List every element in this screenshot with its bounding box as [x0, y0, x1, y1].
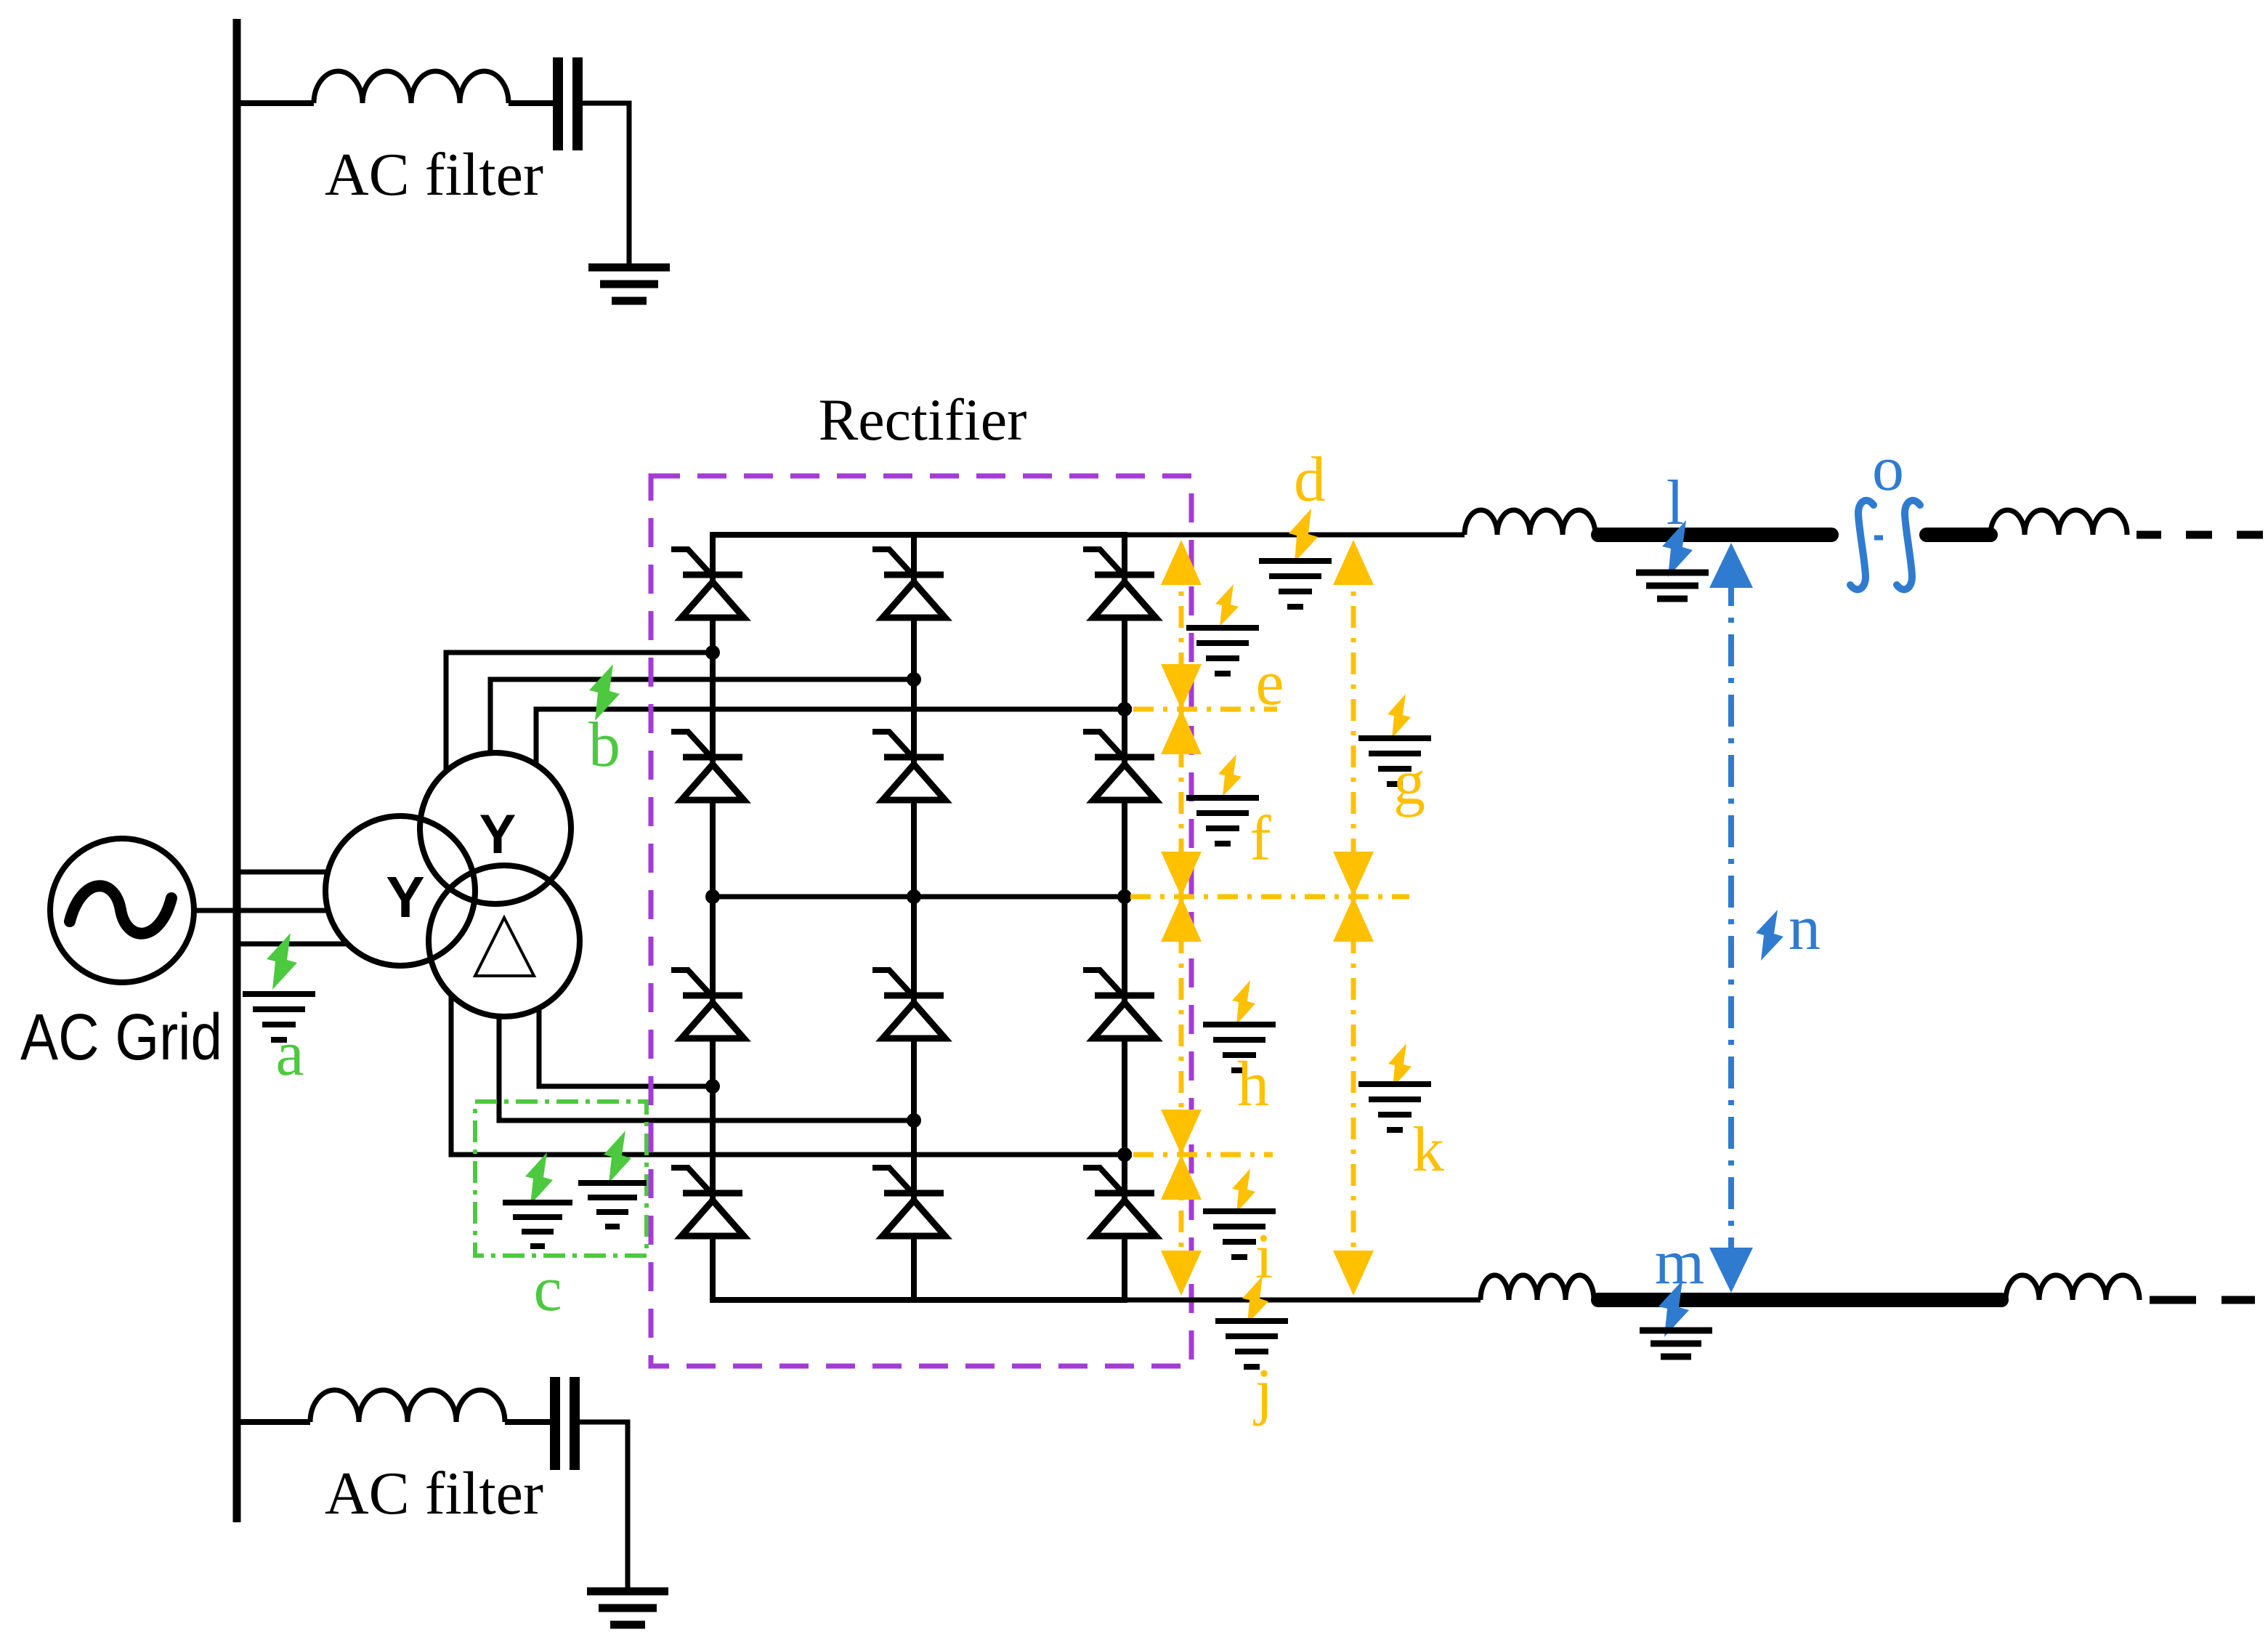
ground bottom AC filter — [587, 1591, 668, 1625]
wire phase3 bus to transformer — [237, 942, 407, 947]
wire DC bottom line — [1127, 1298, 1481, 1303]
node junction 1 — [705, 645, 720, 660]
svg-text:n: n — [1789, 893, 1821, 964]
rectifier enclosure box — [651, 476, 1191, 1366]
svg-text:Y: Y — [386, 865, 424, 929]
thyristor V10 — [671, 1168, 744, 1236]
fault bolt h — [1232, 980, 1255, 1025]
svg-text:AC filter: AC filter — [325, 1460, 543, 1527]
thyristor V8 — [872, 970, 945, 1038]
fault dimension line V1 — [1179, 560, 1184, 1286]
ground top AC filter — [588, 267, 670, 301]
fault bolt n — [1756, 910, 1783, 961]
wire Y-secondary phase2 — [490, 679, 917, 799]
smoothing reactor DC top left — [1465, 510, 1595, 535]
wire Y-secondary phase3 — [536, 709, 1132, 799]
svg-text:a: a — [275, 1019, 304, 1089]
fault bolt i — [1232, 1168, 1255, 1213]
fault bolt c2 — [604, 1131, 631, 1183]
ground fault i — [1203, 1211, 1276, 1257]
fault bolt l — [1662, 520, 1693, 577]
wire inductor to capacitor — [509, 100, 554, 106]
capacitor top AC filter — [558, 57, 578, 150]
svg-text:e: e — [1255, 648, 1284, 719]
fault zone box c — [475, 1102, 647, 1256]
ground fault g — [1358, 738, 1431, 784]
wire bus to top AC filter — [237, 100, 314, 106]
wire phase1 bus to transformer — [237, 870, 407, 875]
ground fault c1 — [503, 1203, 572, 1246]
wire D-secondary phase3 — [451, 966, 1132, 1155]
svg-text:d: d — [1294, 445, 1326, 515]
ground fault a — [243, 994, 315, 1040]
wire rectifier mid point — [713, 894, 1132, 900]
fault dimension line V2 — [1351, 560, 1356, 1286]
AC source AC Grid — [50, 839, 194, 982]
node junction 6 — [1117, 889, 1132, 904]
wire DC bottom dashed continuation — [2150, 1296, 2255, 1304]
node junction 9 — [1117, 1147, 1132, 1162]
svg-text:m: m — [1655, 1227, 1704, 1298]
svg-text:Rectifier: Rectifier — [819, 387, 1027, 453]
wire rectifier leg 3 — [1122, 535, 1127, 1300]
svg-text:g: g — [1393, 748, 1425, 818]
thyristor V4 — [671, 732, 744, 800]
fault bolt k — [1388, 1043, 1412, 1088]
svg-text:AC filter: AC filter — [325, 141, 543, 209]
capacitor bottom AC filter — [555, 1377, 575, 1470]
DC bottom line thick section — [1598, 1293, 2001, 1307]
svg-text:o: o — [1872, 434, 1904, 504]
fault line i extension — [1133, 1152, 1273, 1158]
wire rectifier leg 2 — [911, 535, 917, 1300]
svg-text:Y: Y — [479, 804, 517, 865]
wire DC top dashed continuation — [2137, 531, 2263, 539]
svg-text:AC Grid: AC Grid — [20, 1001, 222, 1074]
fault line e extension — [1133, 707, 1277, 712]
wire rectifier bottom bus — [710, 1297, 1127, 1303]
thyristor V12 — [1083, 1168, 1156, 1236]
wire bus to bottom AC filter — [237, 1419, 310, 1425]
inductor bottom AC filter — [310, 1390, 505, 1422]
wire capacitor to ground — [580, 1422, 628, 1590]
AC bus bar — [233, 19, 241, 1522]
node junction 4 — [705, 889, 720, 904]
thyristor V3 — [1083, 549, 1156, 618]
ground fault d — [1259, 561, 1332, 607]
thyristor V2 — [872, 549, 945, 618]
node junction 8 — [907, 1113, 921, 1128]
ground fault l — [1636, 573, 1709, 599]
thyristor V9 — [1083, 970, 1156, 1038]
svg-text:c: c — [533, 1254, 562, 1325]
fault bolt a — [267, 933, 297, 990]
wire source to bus — [192, 908, 237, 913]
thyristor V1 — [671, 549, 744, 618]
thyristor V5 — [872, 732, 945, 800]
wire D-secondary phase1 — [539, 966, 716, 1086]
node junction 3 — [1117, 702, 1132, 716]
thyristor V7 — [671, 970, 744, 1038]
node junction 2 — [907, 672, 921, 687]
fault bolt j — [1242, 1276, 1268, 1324]
wire rectifier leg 1 — [710, 535, 716, 1300]
thyristor V6 — [1083, 732, 1156, 800]
fault bolt c1 — [525, 1152, 553, 1205]
inductor top AC filter — [314, 71, 509, 103]
smoothing reactor DC bottom right — [2006, 1275, 2139, 1300]
wire rectifier top bus — [710, 532, 1127, 538]
line break symbol o — [1850, 501, 1920, 590]
ground fault k — [1358, 1084, 1431, 1130]
svg-text:k: k — [1412, 1115, 1444, 1185]
fault bolt f — [1218, 754, 1242, 796]
svg-text:j: j — [1253, 1357, 1273, 1427]
fault bolt b — [589, 664, 620, 721]
svg-text:b: b — [588, 710, 620, 780]
ground fault e — [1186, 628, 1259, 674]
ground fault f — [1186, 798, 1259, 844]
wire Y-secondary phase1 — [446, 653, 716, 799]
fault bolt m — [1659, 1280, 1689, 1337]
ground fault h — [1203, 1025, 1276, 1070]
fault bolt e — [1215, 584, 1239, 626]
fault bolt g — [1388, 694, 1411, 738]
winding label Delta secondary — [475, 918, 534, 976]
transformer 3-winding — [325, 753, 580, 1017]
fault line f extension — [1130, 894, 1409, 900]
wire capacitor to ground — [583, 103, 629, 266]
wire DC top line — [1127, 533, 1465, 538]
wire inductor to capacitor — [505, 1419, 551, 1425]
smoothing reactor DC top right — [1990, 510, 2127, 535]
ground fault m — [1640, 1330, 1712, 1357]
ground fault c2 — [578, 1183, 647, 1227]
smoothing reactor DC bottom left — [1481, 1275, 1594, 1300]
DC top line thick section right — [1927, 528, 1990, 542]
thyristor V11 — [872, 1168, 945, 1236]
DC top line thick section left — [1598, 528, 1831, 542]
svg-text:l: l — [1666, 468, 1684, 538]
wire phase2 bus to transformer — [237, 908, 407, 913]
node junction 7 — [705, 1079, 720, 1094]
svg-text:f: f — [1250, 804, 1271, 874]
fault bolt d — [1289, 509, 1318, 562]
node junction 5 — [907, 889, 921, 904]
svg-text:h: h — [1237, 1049, 1269, 1120]
wire D-secondary phase2 — [499, 966, 917, 1120]
fault dimension line DC — [1728, 574, 1734, 1279]
ground fault j — [1215, 1321, 1288, 1367]
